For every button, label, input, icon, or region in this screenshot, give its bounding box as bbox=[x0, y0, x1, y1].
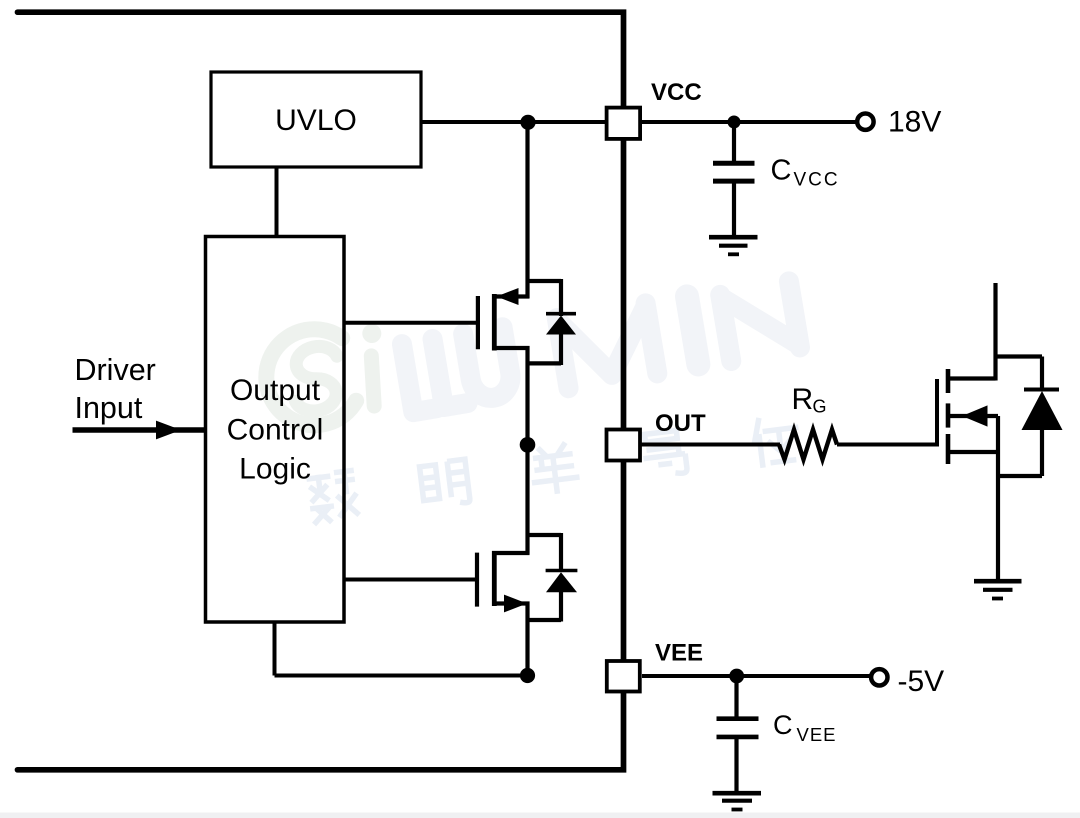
svg-text:C: C bbox=[773, 710, 793, 740]
wire gate of Q1 from control logic bbox=[344, 321, 477, 325]
resistor RG bbox=[779, 383, 837, 460]
transistor Q2 (N-channel, lower) bbox=[477, 535, 561, 620]
UVLO block U1 bbox=[211, 72, 421, 167]
svg-text:C: C bbox=[771, 155, 792, 187]
svg-text:VCC: VCC bbox=[651, 79, 702, 106]
svg-text:Control: Control bbox=[227, 414, 324, 447]
body diode D3 of Q3 bbox=[996, 357, 1063, 477]
driver input label bbox=[75, 353, 156, 425]
svg-text:Driver: Driver bbox=[75, 353, 156, 387]
terminal 18V bbox=[857, 106, 941, 139]
svg-text:Input: Input bbox=[75, 391, 143, 425]
svg-text:OUT: OUT bbox=[655, 410, 706, 437]
wire Q2 source down to VEE rail bbox=[525, 602, 529, 676]
watermark text LLUMIN bbox=[402, 279, 800, 414]
node VCC rail junction bbox=[520, 115, 535, 130]
capacitor CVEE bbox=[717, 676, 759, 791]
wire VCC pin to 18V terminal bbox=[642, 120, 856, 124]
node VEE rail junction bbox=[520, 668, 535, 683]
wire Q1 drain to OUT rail and Q2 drain bbox=[525, 346, 529, 555]
wire control logic bottom to VEE rail bbox=[275, 622, 528, 676]
svg-text:R: R bbox=[792, 383, 814, 416]
pin VEE bbox=[607, 640, 703, 692]
svg-text:Logic: Logic bbox=[239, 453, 311, 486]
watermark chinese characters bbox=[306, 413, 803, 524]
capacitor CVCC bbox=[713, 122, 755, 235]
value label CVCC bbox=[771, 155, 840, 191]
watermark logo Si bbox=[259, 318, 394, 432]
body diode D1 of Q1 bbox=[546, 279, 576, 365]
svg-text:UVLO: UVLO bbox=[275, 104, 357, 137]
wire internal VCC rail down to Q1 bbox=[525, 122, 529, 298]
value label CVEE bbox=[773, 710, 837, 745]
ground under CVEE bbox=[713, 793, 762, 809]
node VCC capacitor junction bbox=[728, 116, 741, 129]
wire gate of Q2 from control logic bbox=[344, 578, 476, 582]
node OUT rail junction bbox=[520, 437, 536, 453]
svg-text:VCC: VCC bbox=[794, 170, 840, 191]
bottom strip bbox=[0, 813, 1080, 818]
body diode D2 of Q2 bbox=[546, 533, 578, 622]
pin VCC bbox=[607, 79, 702, 139]
wire UVLO to VCC pin bbox=[421, 120, 605, 124]
svg-text:VEE: VEE bbox=[797, 724, 837, 745]
svg-text:18V: 18V bbox=[888, 106, 941, 139]
svg-text:Output: Output bbox=[230, 374, 321, 407]
wire OUT pin to resistor RG bbox=[642, 443, 781, 447]
ground under CVCC bbox=[709, 237, 758, 254]
node VEE capacitor junction bbox=[729, 669, 744, 684]
Output Control Logic block U2 bbox=[206, 237, 345, 623]
ground under Q3 source bbox=[974, 581, 1022, 598]
svg-text:-5V: -5V bbox=[898, 665, 945, 698]
pin OUT bbox=[607, 410, 707, 461]
terminal -5V bbox=[871, 665, 944, 698]
svg-text:VEE: VEE bbox=[655, 640, 703, 667]
wire resistor RG to gate of Q3 bbox=[837, 443, 937, 447]
IC boundary bbox=[18, 12, 624, 770]
wire UVLO to Output Control Logic bbox=[275, 167, 279, 237]
wire VEE pin to -5V terminal bbox=[642, 674, 871, 678]
wire driver input arrow bbox=[73, 421, 206, 440]
transistor Q3 (external power MOSFET) bbox=[937, 283, 998, 581]
svg-text:G: G bbox=[813, 397, 827, 417]
transistor Q1 (P-channel, upper) bbox=[478, 281, 561, 363]
